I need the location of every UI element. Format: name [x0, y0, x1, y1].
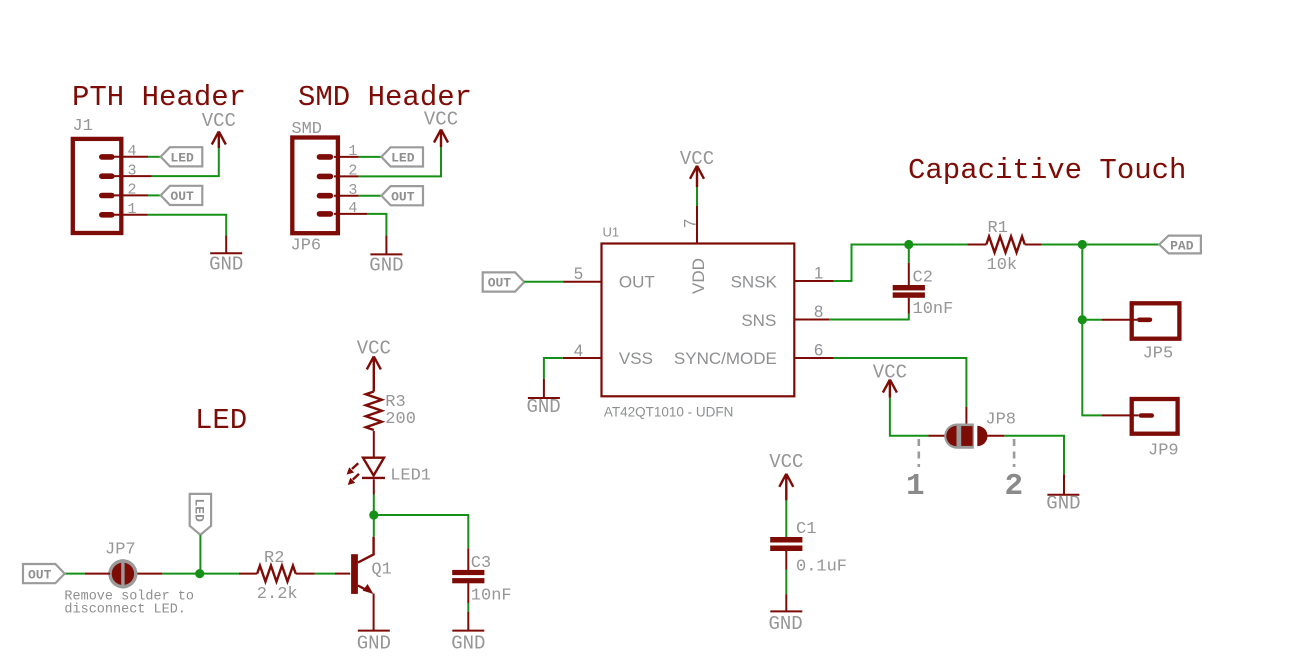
wire C1 to GND — [785, 570, 787, 595]
wire U1 pin5 stub — [563, 281, 601, 283]
wire junction to C3 — [374, 515, 469, 548]
ground symbol GND (C3) — [451, 631, 485, 655]
wire JP5 branch down to JP9 — [1082, 320, 1101, 416]
wire JP6 pin3 stub — [334, 195, 359, 197]
wire SNSK net to junction — [834, 245, 909, 282]
ground symbol GND (JP6) — [369, 254, 403, 276]
power symbol VCC (R3) — [357, 338, 391, 392]
capacitor C1 — [770, 520, 847, 577]
solder jumper JP8 — [944, 411, 1016, 449]
wire C2 bottom lead — [908, 298, 910, 314]
svg-text:disconnect LED.: disconnect LED. — [64, 603, 186, 618]
svg-text:JP6: JP6 — [291, 237, 322, 256]
svg-text:LED: LED — [192, 499, 207, 523]
svg-text:U1: U1 — [603, 225, 620, 240]
wire LED tag to junction — [199, 535, 201, 574]
wire C3 to GND — [467, 603, 469, 612]
wire JP6 pin2 to VCC — [359, 146, 441, 176]
svg-text:SMD: SMD — [291, 120, 322, 139]
connector JP9 — [1132, 399, 1179, 461]
svg-text:GND: GND — [357, 633, 391, 655]
svg-text:GND: GND — [451, 633, 485, 655]
wire LED1 to collector junction — [373, 495, 375, 516]
wire R2 left lead — [239, 573, 257, 575]
transistor Q1 — [351, 554, 392, 594]
connector JP5 — [1132, 303, 1180, 363]
connector J1 — [73, 139, 122, 233]
svg-text:1: 1 — [906, 469, 925, 504]
wire GND stub (C1) — [785, 594, 787, 611]
wire JP7 pad1 stub — [85, 573, 110, 575]
wire Q1 base stub — [335, 573, 350, 575]
wire JP8 center stub — [965, 407, 967, 430]
wire C3 top lead — [467, 548, 469, 570]
svg-text:C2: C2 — [913, 269, 933, 288]
svg-text:6: 6 — [814, 342, 823, 360]
svg-text:GND: GND — [209, 254, 243, 276]
svg-text:1: 1 — [814, 265, 823, 283]
svg-text:GND: GND — [769, 613, 803, 635]
wire U1 pin1 SNSK stub — [795, 280, 834, 282]
junction node LED1/Q1/C3 — [369, 510, 378, 519]
svg-text:GND: GND — [527, 396, 561, 418]
svg-text:VCC: VCC — [357, 338, 391, 360]
svg-text:SNSK: SNSK — [731, 273, 778, 292]
wire R2 right lead — [296, 573, 315, 575]
IC U1 AT42QT1010 body — [602, 244, 795, 397]
svg-text:LED1: LED1 — [390, 467, 431, 486]
svg-text:200: 200 — [385, 410, 416, 429]
resistor R2 — [257, 549, 298, 604]
net label tag OUT (JP6) — [381, 186, 423, 205]
svg-text:VCC: VCC — [202, 110, 236, 132]
wire junction to Q1 collector — [373, 515, 375, 537]
wire R3 to LED1 — [373, 431, 375, 458]
svg-text:LED: LED — [391, 151, 415, 166]
junction node SNSK/C2/R1 — [904, 240, 913, 249]
wire U1 pin4 stub — [563, 357, 601, 359]
svg-text:VDD: VDD — [689, 258, 708, 294]
svg-text:R1: R1 — [988, 219, 1008, 238]
connector JP6 — [292, 138, 338, 234]
wire J1 pin4 stub — [115, 156, 149, 158]
wire JP8 pad2 stub — [987, 435, 1004, 437]
svg-text:OUT: OUT — [619, 273, 655, 292]
wire J1 pin4 to LED tag — [148, 156, 161, 158]
wire JP7 pad2 stub — [136, 573, 162, 575]
wire JP8 pad1 stub — [928, 435, 946, 437]
svg-text:LED: LED — [170, 151, 194, 166]
wire junction to JP7 — [162, 573, 200, 575]
net label tag LED (JP6) — [381, 147, 423, 166]
svg-text:GND: GND — [369, 255, 403, 277]
svg-text:VCC: VCC — [680, 148, 714, 170]
wire C2 top lead — [908, 263, 910, 286]
wire GND stub (JP8) — [1063, 474, 1065, 495]
svg-text:JP7: JP7 — [105, 541, 136, 560]
svg-text:10k: 10k — [987, 256, 1018, 275]
net label tag OUT (U1 pin5) — [483, 272, 525, 291]
svg-text:5: 5 — [574, 265, 583, 283]
svg-text:Capacitive Touch: Capacitive Touch — [908, 154, 1186, 187]
svg-text:C3: C3 — [471, 554, 491, 573]
power symbol VCC (J1) — [202, 110, 236, 148]
ground symbol GND (JP8) — [1046, 493, 1080, 515]
wire U1 pin6 SYNC/MODE stub — [795, 357, 834, 359]
wire GND stub (VSS) — [543, 379, 545, 398]
wire J1 pin2 to OUT tag — [148, 194, 161, 196]
wire OUT tag to JP7 — [65, 573, 85, 575]
ground symbol GND (Q1) — [357, 631, 391, 655]
wire JP6 pin4 to GND — [367, 214, 386, 236]
power symbol VCC (JP6) — [424, 109, 458, 148]
svg-text:AT42QT1010 - UDFN: AT42QT1010 - UDFN — [604, 405, 734, 420]
wire VDD to VCC — [696, 187, 698, 207]
wire J1 pin3 to VCC — [152, 147, 219, 176]
junction node LED tag/R2/JP7 — [195, 569, 204, 578]
LED LED1 — [347, 458, 431, 486]
wire VCC to JP8 pad1 — [890, 398, 929, 436]
wire R1 right lead — [1025, 244, 1042, 246]
wire JP6 pin2 stub — [334, 175, 359, 177]
svg-text:VCC: VCC — [769, 451, 803, 473]
wire R1 left lead — [967, 244, 986, 246]
wire VCC to C1 — [785, 500, 787, 537]
svg-text:10nF: 10nF — [471, 587, 512, 606]
svg-text:OUT: OUT — [28, 567, 52, 582]
wire SYNC/MODE net to JP8 — [834, 358, 967, 407]
resistor R3 — [366, 392, 416, 431]
resistor R1 — [986, 219, 1025, 275]
wire junction to PAD tag — [1082, 244, 1159, 246]
wire JP9 pin stub — [1102, 414, 1139, 416]
wire junction down to JP5 branch — [1081, 245, 1083, 320]
wire GND stub (J1) — [225, 235, 227, 253]
junction node JP5 branch — [1078, 315, 1087, 324]
ground symbol GND (C1) — [769, 611, 803, 635]
svg-text:JP8: JP8 — [985, 411, 1016, 430]
junction node PAD/JP5/JP9 — [1078, 240, 1087, 249]
svg-text:JP9: JP9 — [1148, 442, 1179, 461]
svg-text:LED: LED — [195, 404, 247, 437]
svg-text:OUT: OUT — [391, 190, 415, 205]
power symbol VCC (JP8) — [873, 362, 907, 398]
ground symbol GND (U1 VSS) — [527, 396, 561, 418]
wire C2 to U1 pin8 — [829, 314, 909, 320]
net label tag PAD — [1159, 236, 1201, 254]
wire GND stub (JP6) — [385, 235, 387, 254]
svg-text:SNS: SNS — [741, 311, 776, 330]
wire Q1 collector stub — [358, 537, 374, 563]
dashed lead pin 1 (JP8) — [917, 439, 920, 467]
wire J1 pin3 stub — [115, 175, 152, 177]
wire Q1 emitter to GND — [373, 594, 375, 631]
svg-text:J1: J1 — [73, 117, 93, 136]
svg-text:PAD: PAD — [1170, 238, 1194, 253]
capacitor C2 — [893, 269, 954, 320]
net label tag OUT (J1) — [161, 186, 203, 205]
wire OUT tag to U1 pin5 — [524, 281, 563, 283]
wire U1 pin7 VDD stub — [696, 206, 698, 244]
power symbol VCC (U1 VDD) — [680, 148, 714, 187]
wire junction to JP5 — [1082, 319, 1101, 321]
net label tag LED (J1) — [161, 147, 203, 166]
svg-text:R2: R2 — [264, 549, 284, 568]
note text Remove solder — [64, 590, 194, 618]
wire C1 bottom lead — [785, 551, 787, 570]
wire JP6 pin3 to OUT tag — [359, 195, 382, 197]
wire JP6 pin4 stub — [334, 213, 367, 215]
net label tag OUT (LED section) — [23, 564, 65, 583]
wire J1 pin2 stub — [115, 194, 149, 196]
svg-text:SYNC/MODE: SYNC/MODE — [674, 349, 777, 368]
svg-text:Q1: Q1 — [371, 561, 391, 580]
svg-text:VCC: VCC — [873, 362, 907, 384]
capacitor C3 — [452, 554, 511, 606]
wire base to R2 — [315, 573, 335, 575]
wire JP6 pin1 to LED tag — [359, 156, 382, 158]
wire JP6 pin1 stub — [334, 156, 359, 158]
svg-text:10nF: 10nF — [913, 300, 954, 319]
wire U1 pin4 to GND — [544, 358, 563, 379]
wire R2 to junction — [200, 573, 239, 575]
svg-text:GND: GND — [1046, 493, 1080, 515]
wire J1 pin1 stub — [115, 214, 148, 216]
power symbol VCC (C1) — [769, 451, 803, 500]
wire U1 pin8 SNS stub — [795, 319, 829, 321]
svg-text:VCC: VCC — [424, 109, 458, 131]
solder jumper JP7 — [105, 541, 138, 589]
wire GND stub (C3) — [467, 612, 469, 631]
wire C3 bottom lead — [467, 583, 469, 603]
svg-text:VSS: VSS — [619, 349, 653, 368]
dashed lead pin 2 (JP8) — [1013, 439, 1016, 467]
svg-text:2.2k: 2.2k — [257, 585, 298, 604]
wire R1 to PAD junction — [1042, 244, 1083, 246]
wire JP5 pin stub — [1102, 319, 1137, 321]
wire JP8 pad2 to GND — [1004, 436, 1064, 475]
svg-text:OUT: OUT — [488, 276, 512, 291]
svg-text:C1: C1 — [796, 520, 816, 539]
wire LED1 cathode stub — [373, 479, 375, 494]
wire junction down to C2 — [908, 245, 910, 263]
ground symbol GND (J1) — [209, 253, 243, 275]
svg-text:2: 2 — [1005, 469, 1024, 504]
wire junction to R1 — [909, 244, 968, 246]
svg-text:8: 8 — [814, 303, 823, 321]
svg-text:OUT: OUT — [170, 189, 194, 204]
wire J1 pin1 to GND — [148, 215, 227, 236]
net label tag LED (vertical) — [190, 494, 211, 535]
svg-text:0.1uF: 0.1uF — [796, 558, 847, 577]
svg-text:JP5: JP5 — [1143, 345, 1174, 364]
